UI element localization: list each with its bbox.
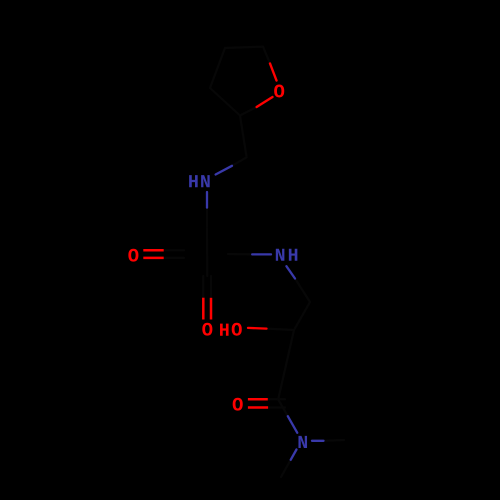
bond C-C(OH)	[294, 302, 310, 330]
hydroxyl O-C red half	[248, 327, 267, 330]
bond N-CH3 right half	[312, 440, 324, 442]
bond N-C down half	[206, 208, 208, 229]
carbon skeleton (near-invisible dark bonds)	[164, 47, 344, 477]
bond C-N amide half	[278, 399, 288, 416]
atom label: amide N label	[298, 436, 307, 448]
left ketone C=O red halves	[143, 250, 163, 258]
bond CH2-N half	[232, 157, 247, 166]
right NH bond halves (blue)	[252, 254, 295, 278]
atom label: amide O label	[233, 398, 243, 411]
amide N bond halves (blue)	[288, 416, 324, 460]
mid ketone C=O red halves (vertical)	[203, 298, 211, 320]
atom label: amine HN label	[189, 175, 198, 187]
bond C(OH)-O half	[267, 329, 295, 330]
bond C2-O half	[240, 107, 257, 116]
bond N-C down half	[206, 192, 208, 208]
N-methyl left half	[281, 460, 291, 477]
bond C-NH half	[228, 253, 252, 256]
bond NH-C down-right half	[286, 266, 295, 278]
bond NH-C left half	[252, 253, 271, 255]
atom label: amine NH label	[276, 249, 285, 261]
atom label: hydroxyl HO label	[220, 324, 229, 336]
bond N-C(=O) half	[288, 416, 298, 433]
bond C-C vertical	[206, 229, 208, 277]
bond N-CH2 half	[216, 166, 232, 175]
bond O-C2 half	[257, 97, 273, 107]
amide C=O carbon halves	[268, 399, 285, 407]
atom label: mid ketone O label	[202, 323, 212, 336]
atom label: left ketone O label	[128, 249, 138, 262]
amide C=O red halves	[248, 399, 268, 407]
bond O-C5 half	[270, 64, 277, 81]
N-methyl right half	[324, 439, 345, 442]
atom label: furan ring O label	[274, 85, 284, 98]
amine N bond halves top (blue)	[207, 166, 232, 208]
mid C=O carbon halves	[203, 276, 211, 298]
bond C5-O half	[263, 47, 270, 64]
bond C2-CH2	[240, 116, 247, 158]
bond C-C to amide	[278, 330, 294, 399]
left C=O carbon halves	[164, 250, 184, 258]
bond N-CH3 left half	[291, 450, 297, 460]
bond NH-C half	[295, 279, 310, 303]
furan oxygen bond halves (red)	[257, 64, 277, 108]
furan ring C-C edges	[210, 47, 263, 116]
